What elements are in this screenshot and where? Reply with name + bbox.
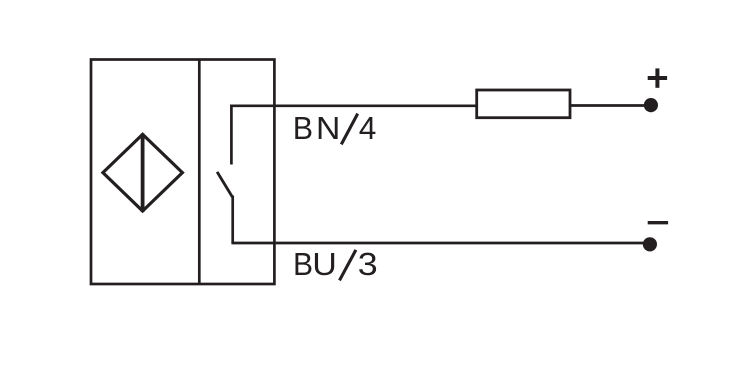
sensor body outline: [91, 60, 274, 285]
switch lower lead: [231, 196, 234, 244]
wire (resistor to plus terminal): [570, 104, 651, 107]
switch upper lead: [230, 105, 233, 165]
sensor symbol (diamond): [103, 134, 182, 212]
wire bottom (switch to minus terminal): [231, 242, 650, 245]
plus terminal node: [644, 98, 658, 112]
label BN/4: [295, 114, 375, 145]
resistor: [477, 90, 570, 118]
label BU/3: [296, 250, 377, 281]
divider line: [198, 60, 201, 285]
wire top (switch to resistor): [230, 104, 477, 107]
switch blade: [217, 172, 232, 197]
minus sign: [648, 221, 668, 224]
minus terminal node: [643, 237, 657, 251]
plus sign: [648, 68, 667, 87]
